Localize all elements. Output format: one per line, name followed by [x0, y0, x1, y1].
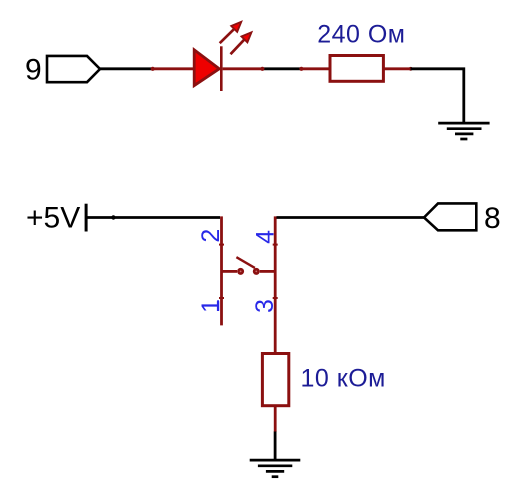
pushbutton S1 lever: [236, 257, 255, 268]
pin label 1 foot serif: [217, 301, 219, 311]
connector 9: [47, 56, 100, 82]
wire: [274, 432, 277, 461]
power rail bar: [85, 204, 88, 232]
pushbutton S1 left contact: [222, 268, 245, 275]
resistor R2 10 кОм: [262, 354, 288, 406]
wire junction dot: [299, 67, 303, 71]
pin 2 terminal: [219, 244, 224, 246]
LED: [194, 46, 221, 91]
wire junction dot: [111, 215, 115, 219]
resistor R1 240 Ом: [330, 56, 383, 82]
wire: [86, 216, 220, 219]
svg-text:4: 4: [251, 230, 279, 244]
LED light arrow 1: [220, 22, 242, 43]
svg-text:3: 3: [251, 299, 279, 313]
resistor R1 left lead: [301, 67, 329, 70]
resistor R1 right lead: [384, 67, 411, 70]
svg-text:8: 8: [484, 202, 501, 235]
ground: [250, 460, 301, 477]
LED light arrow 2: [231, 32, 252, 54]
svg-text:10 кОм: 10 кОм: [301, 364, 386, 392]
svg-text:9: 9: [25, 54, 42, 87]
wire junction dot: [151, 67, 155, 71]
pushbutton S1 left leg (pins 2-1): [220, 216, 223, 325]
svg-text:2: 2: [197, 229, 225, 243]
wire junction dot: [260, 67, 264, 71]
LED anode lead: [152, 67, 194, 70]
svg-text:1: 1: [197, 299, 225, 313]
wire: [99, 67, 153, 70]
pushbutton S1 right leg (pins 4-3): [274, 216, 277, 352]
pushbutton S1 right contact: [253, 268, 275, 275]
pin 4 terminal: [273, 244, 278, 246]
wire: [263, 67, 302, 70]
pin 1 terminal: [219, 297, 224, 299]
connector 8: [424, 203, 476, 230]
resistor R2 bottom lead: [274, 406, 277, 432]
pin 3 terminal: [273, 297, 278, 299]
svg-text:240 Ом: 240 Ом: [317, 20, 405, 48]
svg-text:+5V: +5V: [26, 202, 80, 235]
wire: [277, 216, 425, 219]
LED cathode lead: [223, 67, 263, 70]
ground: [438, 123, 489, 139]
wire: [411, 69, 464, 123]
wire junction dot: [409, 67, 413, 71]
